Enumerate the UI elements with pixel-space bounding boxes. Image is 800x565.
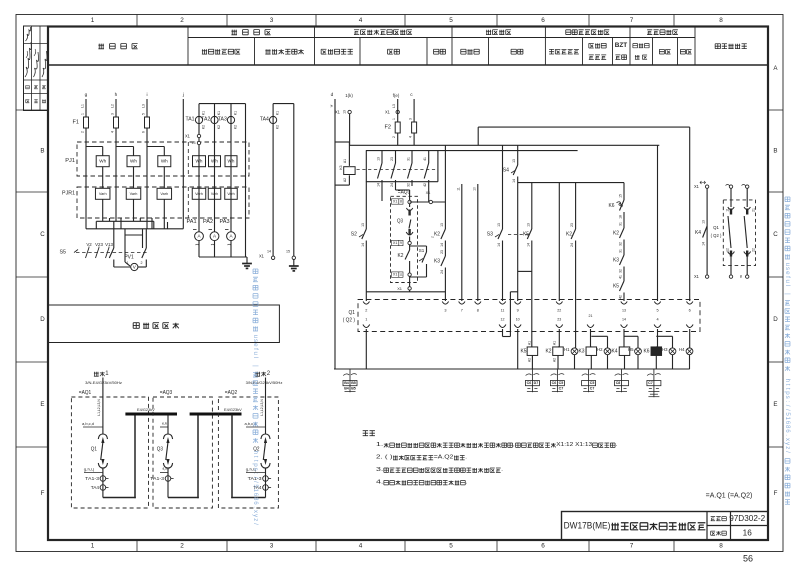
svg-text:5: 5 — [449, 543, 453, 550]
svg-text:e,k: e,k — [162, 421, 167, 425]
svg-text:Wh: Wh — [228, 159, 235, 164]
svg-text:p: p — [784, 391, 791, 395]
svg-text:Q3: Q3 — [157, 447, 163, 453]
svg-text:8: 8 — [400, 199, 402, 203]
svg-text:K5: K5 — [613, 284, 619, 290]
svg-text:6: 6 — [541, 17, 545, 24]
indicator lamp H2 — [597, 347, 603, 352]
svg-text:K3: K3 — [339, 165, 343, 169]
PJ box divider dashes — [187, 142, 189, 176]
svg-text:41: 41 — [423, 157, 427, 161]
svg-text:Q1: Q1 — [713, 225, 719, 231]
svg-text:31: 31 — [407, 157, 411, 161]
svg-text:S5: S5 — [60, 250, 67, 256]
ammeter PA2 — [203, 219, 213, 225]
svg-text:A1: A1 — [343, 159, 347, 163]
svg-text:i: i — [146, 92, 147, 98]
svg-text:K5: K5 — [523, 232, 529, 238]
header cell 接至母联柜 — [715, 44, 747, 49]
svg-text:3: 3 — [270, 543, 274, 550]
meter pin drop 3 — [139, 218, 141, 221]
grid column ticks bottom — [136, 540, 138, 552]
svg-text:d: d — [331, 92, 334, 98]
svg-text:B4: B4 — [344, 381, 349, 385]
svg-text:3/N-E4/G23kV/50Hz: 3/N-E4/G23kV/50Hz — [246, 380, 283, 385]
header cell 欠电压 — [461, 49, 479, 54]
wire to relay coil K2 — [558, 329, 560, 347]
relay coil K6 (solid) — [644, 349, 650, 355]
ammeter PA1 — [187, 219, 197, 225]
svg-text:C7: C7 — [590, 387, 595, 391]
svg-text:21: 21 — [752, 208, 756, 212]
meter element varh a-phase voltage — [95, 188, 110, 199]
svg-text:4: 4 — [359, 543, 363, 550]
svg-text:a,b,c,d: a,b,c,d — [245, 421, 257, 426]
svg-text:7: 7 — [461, 309, 463, 313]
svg-text:X1: X1 — [694, 274, 700, 279]
svg-text:t: t — [784, 388, 791, 390]
svg-text:u: u — [784, 280, 791, 284]
wire varh1 down to rail1 — [102, 199, 104, 221]
current circuit bottom bus — [199, 256, 247, 258]
undervoltage release wire 8 — [477, 184, 479, 301]
link aux contact right — [744, 207, 750, 210]
meter element Wh b-phase current — [209, 156, 221, 167]
svg-text:13: 13 — [526, 223, 530, 227]
svg-text:K3: K3 — [613, 258, 619, 264]
wire lamp H4 supply — [689, 127, 691, 301]
plug contact pins 9/10 — [515, 302, 521, 305]
svg-text:K2: K2 — [566, 232, 572, 238]
meter pin drop 1 — [109, 218, 111, 221]
label source2 system — [246, 380, 283, 385]
svg-text:=AQ3: =AQ3 — [160, 390, 173, 396]
changeover contact K3-2 — [395, 151, 397, 163]
svg-text:5: 5 — [656, 309, 658, 313]
svg-text:TA1-3: TA1-3 — [150, 476, 164, 481]
terminal X1:8 — [392, 199, 404, 204]
svg-text:B5: B5 — [351, 387, 356, 391]
svg-text:6: 6 — [689, 309, 691, 313]
svg-text:a,b,c,d: a,b,c,d — [82, 421, 94, 426]
svg-text:4: 4 — [111, 131, 115, 133]
label 电源1 — [94, 371, 109, 377]
svg-text:L1,L2,L3,N: L1,L2,L3,N — [97, 399, 101, 416]
wire CT right drop — [245, 104, 247, 257]
svg-text:X1: X1 — [426, 190, 432, 195]
wire AQ2 to busbar2 — [231, 497, 265, 499]
svg-text:H5: H5 — [628, 347, 634, 352]
watermark right — [784, 197, 791, 504]
signature scribbles — [26, 27, 31, 41]
wire 22/23 drop — [558, 183, 560, 301]
svg-text:1: 1 — [91, 17, 95, 24]
meter element Wh a-phase current — [193, 156, 206, 167]
current transformer TA3 — [230, 104, 232, 232]
time contact K6 — [623, 183, 625, 200]
wire S4 chain to bottom bus — [517, 329, 519, 369]
svg-text:F: F — [41, 490, 45, 497]
changeover contact K3-3 — [411, 151, 413, 163]
auxiliary contact K3 in BZT chain — [623, 240, 625, 256]
drop from transfer contact 4 — [428, 186, 430, 202]
wire table C7 — [647, 374, 653, 376]
header cell 分闸 — [680, 49, 691, 54]
svg-text:1: 1 — [365, 318, 367, 322]
current transformer TA2 — [214, 104, 216, 232]
svg-text:23: 23 — [570, 223, 574, 227]
svg-text:=AQ2: =AQ2 — [225, 390, 238, 396]
wire K2 shunt to lamp H1 — [575, 241, 577, 348]
svg-text:S4: S4 — [503, 168, 509, 174]
wire table B4/B5 — [343, 374, 349, 376]
svg-text:B5: B5 — [351, 381, 356, 385]
svg-text:TA2: TA2 — [201, 117, 210, 123]
TA4 return wire — [293, 104, 295, 257]
changeover contact K3-4 — [428, 151, 430, 163]
meter element varh b-phase current — [208, 188, 221, 199]
tie cubicle =AQ3 dashed box — [153, 397, 212, 508]
svg-text:15: 15 — [619, 194, 623, 198]
svg-text:13: 13 — [377, 157, 381, 161]
svg-text:21: 21 — [589, 314, 593, 318]
meter element varh c-phase current — [225, 188, 238, 199]
svg-text:B4: B4 — [344, 387, 349, 391]
svg-text:12: 12 — [501, 318, 505, 322]
svg-text:13: 13 — [622, 309, 626, 313]
svg-text:K6: K6 — [644, 349, 650, 355]
current transformer TA1 — [198, 104, 200, 232]
wire link aux right — [746, 188, 748, 207]
voltage rail 3 — [125, 234, 143, 236]
svg-text:s: s — [784, 396, 791, 399]
CT TA1-3 in AQ2 — [265, 468, 267, 498]
svg-text:2: 2 — [141, 261, 143, 265]
svg-text:Varh: Varh — [130, 192, 138, 196]
title text DW17B(ME)型断路器进线柜电路图 — [564, 521, 706, 532]
header cell 电流测量回路 — [202, 49, 240, 54]
meter element Wh c-phase current — [225, 156, 237, 167]
svg-text:5: 5 — [142, 113, 146, 115]
S4 branch bus B4 — [518, 182, 624, 184]
main scheme label box — [48, 305, 279, 343]
S3 dashed linkage to K5 — [508, 234, 529, 236]
svg-text:14: 14 — [702, 242, 706, 246]
svg-text:BZT: BZT — [615, 42, 628, 49]
svg-text:31: 31 — [619, 249, 623, 253]
svg-text:3: 3 — [444, 309, 446, 313]
fuse F1 phase3 — [145, 117, 150, 128]
svg-text:41: 41 — [619, 275, 623, 279]
plug contact pins 22/23 — [556, 302, 562, 305]
svg-text:F1: F1 — [73, 120, 80, 126]
PV1 right vertical — [142, 235, 144, 248]
svg-text:13: 13 — [512, 159, 516, 163]
wire K4 branch — [706, 188, 708, 275]
svg-text:X1: X1 — [335, 110, 341, 115]
svg-text:s: s — [784, 267, 791, 270]
svg-text:PJR1: PJR1 — [62, 191, 75, 197]
svg-text:97D302-2: 97D302-2 — [729, 514, 765, 523]
svg-text:1(k): 1(k) — [345, 93, 353, 98]
svg-text:Q1: Q1 — [349, 310, 356, 316]
circuit breaker Q3 tie — [163, 434, 172, 439]
svg-text:5: 5 — [449, 17, 453, 24]
meter element varh b-phase voltage — [126, 188, 141, 199]
rail interconnect stubs — [95, 221, 97, 229]
svg-text:3.: 3. — [376, 467, 384, 473]
svg-text:C5: C5 — [559, 381, 564, 385]
svg-text:K1: K1 — [234, 111, 238, 115]
svg-text:4.: 4. — [376, 480, 384, 486]
svg-text:31: 31 — [619, 222, 623, 226]
svg-text:K3: K3 — [579, 349, 585, 355]
svg-text:TA3: TA3 — [218, 117, 227, 123]
svg-text:3: 3 — [111, 113, 115, 115]
svg-text:S1: S1 — [419, 248, 425, 253]
svg-text:K2: K2 — [202, 125, 206, 129]
svg-text:H1: H1 — [564, 347, 570, 352]
title block 方案号 — [711, 531, 727, 535]
svg-text:8: 8 — [477, 309, 479, 313]
svg-text:Varh: Varh — [160, 192, 168, 196]
svg-text:V13: V13 — [105, 242, 113, 247]
wire L3 down to rail — [146, 128, 148, 229]
svg-text:14: 14 — [622, 318, 626, 322]
wire Wh2 to varh2 — [133, 167, 135, 189]
svg-text:18: 18 — [619, 215, 623, 219]
svg-text:m: m — [739, 275, 743, 278]
svg-text:K2: K2 — [613, 231, 619, 237]
meter tap branch phase2 — [116, 146, 134, 148]
svg-text:TA1: TA1 — [186, 117, 195, 123]
wire table C8 — [615, 374, 621, 376]
svg-text:p: p — [252, 463, 259, 467]
svg-text:42: 42 — [423, 183, 427, 187]
svg-text:PA2: PA2 — [203, 219, 213, 225]
svg-text:L1,L2,L3,N: L1,L2,L3,N — [260, 399, 264, 416]
indicator lamp H5 — [628, 347, 634, 352]
wire tie from busbar1 — [167, 416, 169, 435]
svg-text:Q1: Q1 — [91, 447, 97, 453]
svg-text:22: 22 — [557, 309, 561, 313]
svg-text:H3: H3 — [662, 347, 668, 352]
svg-text:h: h — [115, 92, 118, 98]
svg-text:K4: K4 — [695, 230, 701, 236]
svg-text:/: / — [252, 477, 259, 479]
svg-text:H4: H4 — [679, 347, 685, 352]
plug contact pin3 — [442, 302, 448, 305]
wire Wh1 to varh1 — [102, 167, 104, 189]
svg-text:X1:12 X1:13: X1:12 X1:13 — [556, 442, 593, 448]
ground current circuit — [246, 257, 248, 264]
wire to relay coil K6 — [657, 329, 659, 347]
auxiliary contact K2 in BZT chain — [623, 212, 625, 228]
wire L1 down to rail — [85, 128, 87, 229]
svg-text::: : — [784, 401, 791, 403]
svg-text:( Q2 ): ( Q2 ) — [343, 318, 356, 324]
svg-text:22: 22 — [752, 248, 756, 252]
svg-text:2: 2 — [180, 543, 184, 550]
watt-hour meter PJ1 dashed box — [77, 142, 249, 176]
svg-text:L1: L1 — [81, 104, 85, 108]
svg-text:g: g — [85, 93, 88, 98]
selector contact left — [113, 221, 115, 248]
wire f(e) to contact — [397, 133, 399, 145]
svg-text:C: C — [773, 231, 778, 238]
header cell 保护及控制电路 — [566, 30, 610, 35]
svg-text:K2: K2 — [398, 253, 404, 259]
svg-text:/: / — [252, 481, 259, 483]
svg-text:14: 14 — [361, 243, 365, 247]
svg-text:j: j — [182, 92, 184, 98]
wire AQ3 bottom — [409, 276, 411, 286]
header cell 短路及指示 — [549, 49, 579, 54]
svg-text:s: s — [252, 339, 259, 342]
svg-text:.: . — [784, 434, 791, 436]
svg-text:K2: K2 — [217, 125, 221, 129]
svg-text:l: l — [252, 357, 259, 358]
circuit breaker Q1 main — [98, 434, 107, 439]
current transformer TA4 — [272, 104, 274, 257]
svg-text:K2: K2 — [276, 125, 280, 129]
voltmeter selector switch S5 — [60, 250, 67, 256]
svg-text:6: 6 — [142, 131, 146, 133]
plug contact pins 5/4 — [654, 302, 660, 305]
svg-text:11: 11 — [726, 208, 730, 212]
svg-text:L2: L2 — [111, 104, 115, 108]
svg-text:14: 14 — [377, 183, 381, 187]
svg-text:14: 14 — [512, 179, 516, 183]
svg-text:6: 6 — [541, 543, 545, 550]
svg-text:TA4: TA4 — [91, 485, 100, 490]
svg-text:E4/G23kV: E4/G23kV — [224, 407, 242, 412]
svg-text:h: h — [784, 379, 791, 383]
svg-text:13: 13 — [192, 141, 196, 145]
svg-text:11: 11 — [501, 309, 505, 313]
wire AQ1 to busbar1 — [103, 497, 136, 499]
svg-text:11: 11 — [457, 187, 461, 191]
manual close button S1 — [410, 245, 427, 247]
svg-text:F2: F2 — [385, 125, 392, 131]
terminal link aux right top — [746, 185, 749, 188]
svg-text:13: 13 — [440, 223, 444, 227]
auxiliary contact K3 undervoltage — [444, 241, 446, 257]
meter element varh c-phase voltage — [157, 188, 172, 199]
note 3 — [376, 467, 503, 473]
svg-text:e: e — [252, 343, 259, 347]
svg-text:L3: L3 — [392, 104, 396, 108]
svg-text:1: 1 — [91, 543, 95, 550]
svg-text:12: 12 — [726, 248, 730, 252]
current transformer TA4 top bus — [273, 103, 294, 105]
wire table C6/D7 — [526, 374, 532, 376]
relay coil K2 — [546, 349, 552, 355]
wire phase L3 — [146, 99, 148, 117]
svg-text:PJ1: PJ1 — [65, 158, 75, 164]
svg-text:32: 32 — [619, 269, 623, 273]
svg-text:14: 14 — [526, 243, 530, 247]
svg-text:3: 3 — [409, 118, 413, 120]
signature table — [24, 26, 49, 111]
svg-text:6: 6 — [252, 501, 259, 505]
bottom control bus — [334, 368, 690, 370]
svg-text:PV1: PV1 — [124, 255, 134, 261]
svg-text:E4/G23kV: E4/G23kV — [137, 407, 155, 412]
svg-text:8: 8 — [719, 17, 723, 24]
meter element Wh b-phase voltage — [127, 156, 140, 167]
svg-text:X1: X1 — [393, 273, 398, 277]
svg-text:2: 2 — [365, 309, 367, 313]
svg-text:3/N-E4/G23kV/50Hz: 3/N-E4/G23kV/50Hz — [85, 380, 122, 385]
svg-text:Q3: Q3 — [397, 219, 403, 225]
plug contact pins 11/12 — [499, 302, 505, 305]
svg-text:10: 10 — [473, 187, 477, 191]
svg-text:C6: C6 — [552, 381, 557, 385]
svg-text:H2: H2 — [597, 347, 603, 352]
source1 link rail — [335, 141, 350, 143]
svg-text:t: t — [252, 460, 259, 462]
wire to relay coil K3 — [590, 329, 592, 347]
notes 注 — [363, 431, 375, 436]
svg-text:3: 3 — [270, 17, 274, 24]
svg-text:f: f — [252, 348, 259, 350]
svg-text:Varh: Varh — [211, 192, 218, 196]
svg-text:/: / — [784, 405, 791, 407]
ground TA4 — [293, 260, 295, 267]
relay coil K4 — [612, 349, 618, 355]
svg-text:23: 23 — [557, 318, 561, 322]
S5 pole a — [86, 248, 90, 259]
relay coil K3 — [579, 349, 585, 355]
wire phase L2 — [115, 99, 117, 117]
svg-text:X1: X1 — [185, 134, 191, 139]
svg-text:K1: K1 — [202, 111, 206, 115]
relay coil K5 — [521, 349, 527, 355]
circuit breaker Q2 main — [261, 434, 270, 439]
title block box — [562, 512, 769, 541]
control switch S4 — [517, 145, 519, 165]
svg-text:24: 24 — [390, 183, 394, 187]
relay coil K3 (transfer) — [344, 167, 355, 175]
PV1 wiring verticals — [124, 235, 126, 262]
wire phase L1 — [85, 99, 87, 117]
plug contact pin2/pin1 — [363, 302, 369, 305]
svg-text:K2: K2 — [434, 232, 440, 238]
svg-text:X1: X1 — [385, 110, 391, 115]
svg-text:14: 14 — [440, 243, 444, 247]
svg-text:l: l — [784, 285, 791, 286]
wire AQ3 to busbar2 — [168, 497, 199, 499]
breaker box =AQ3 aux dashed box — [391, 196, 418, 282]
control bus B2 — [366, 150, 578, 152]
main control bus B1 — [350, 144, 660, 146]
meter element Wh c-phase voltage — [158, 156, 171, 167]
CT TA4 in AQ2 — [253, 485, 262, 490]
header cell 合闸 — [659, 49, 670, 54]
meter element Wh a-phase voltage — [96, 156, 109, 167]
indicator lamp H3 — [662, 347, 668, 352]
svg-text:10: 10 — [516, 318, 520, 322]
label Q1 (Q2) link — [713, 225, 719, 231]
svg-text:K2: K2 — [546, 349, 552, 355]
svg-text:13: 13 — [361, 223, 365, 227]
svg-text:11: 11 — [399, 273, 402, 277]
svg-text:2. ( ): 2. ( ) — [376, 455, 393, 461]
svg-text:4: 4 — [656, 318, 658, 322]
terminal X1:10 — [392, 272, 404, 277]
meter tap branch phase1 — [86, 146, 103, 148]
